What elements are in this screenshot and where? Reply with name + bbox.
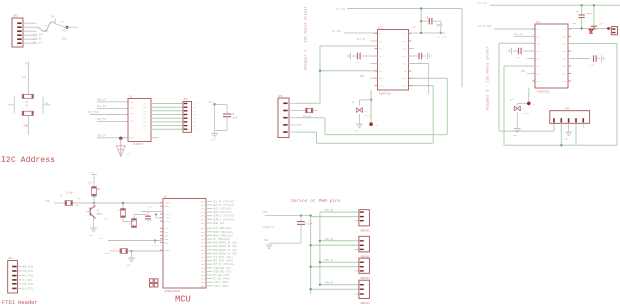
svg-text:GND: GND bbox=[89, 234, 94, 237]
electrolytic capacitor C11 bbox=[421, 17, 443, 27]
svg-text:SCL_5V: SCL_5V bbox=[33, 41, 42, 44]
label D1 values bbox=[365, 111, 372, 118]
svg-text:0.1uF: 0.1uF bbox=[152, 245, 159, 248]
svg-text:BLK_FTDI: BLK_FTDI bbox=[22, 287, 34, 290]
wire vertical net above R1/R2 bbox=[27, 62, 29, 95]
svg-text:AGND: AGND bbox=[165, 249, 171, 252]
svg-text:TXO_FTDI (PD1): TXO_FTDI (PD1) bbox=[213, 256, 234, 259]
ground below JP5 bbox=[564, 123, 572, 140]
svg-text:SCL_5V (PC5/A5): SCL_5V (PC5/A5) bbox=[213, 200, 235, 203]
wire JP5 pin5 stub bbox=[582, 123, 584, 127]
svg-text:U1: U1 bbox=[164, 195, 168, 198]
MCU U1 left pin stubs bbox=[160, 203, 163, 251]
svg-text:PWM_SERVO_2A (D3): PWM_SERVO_2A (D3) bbox=[213, 252, 238, 255]
label net names under JP1 wires bbox=[33, 30, 67, 45]
svg-text:RX_LED (PD5): RX_LED (PD5) bbox=[213, 274, 231, 277]
label JP4 pin numbers bbox=[194, 103, 197, 132]
wire servo power bus bbox=[309, 214, 311, 293]
svg-text:MCU: MCU bbox=[175, 295, 191, 305]
svg-text:PWM_2B: PWM_2B bbox=[325, 209, 334, 212]
svg-text:INT: INT bbox=[130, 119, 135, 122]
wire servo gnd rail bbox=[264, 239, 301, 248]
label D3 values bbox=[523, 109, 530, 116]
svg-text:GND: GND bbox=[130, 137, 135, 140]
wire JP3 pin4 stub bbox=[297, 124, 302, 126]
capacitor C6 bbox=[141, 212, 151, 222]
svg-text:INT_5V: INT_5V bbox=[97, 118, 107, 121]
svg-text:DTR: DTR bbox=[45, 200, 50, 203]
diode D1 zener bbox=[357, 108, 363, 113]
svg-text:GND_5V: GND_5V bbox=[97, 134, 107, 137]
wire JP5 pin2 down bbox=[560, 123, 562, 146]
label R6 10k bbox=[88, 182, 101, 192]
wire motor out net A bbox=[297, 78, 448, 134]
svg-text:VCC_5V0: VCC_5V0 bbox=[33, 34, 44, 37]
wire squiggle net crossover bbox=[37, 22, 56, 31]
svg-text:U2: U2 bbox=[129, 95, 133, 98]
label IC2 pin names bbox=[537, 28, 567, 83]
svg-text:AREF: AREF bbox=[165, 205, 171, 208]
label R9 value bbox=[104, 246, 116, 255]
svg-text:C14: C14 bbox=[516, 56, 521, 59]
svg-text:CURR_1 (PC1/A1): CURR_1 (PC1/A1) bbox=[213, 215, 235, 218]
svg-text:VBB: VBB bbox=[412, 26, 417, 29]
svg-text:ADC2 (PC2/A2): ADC2 (PC2/A2) bbox=[213, 211, 232, 214]
capacitor C17 top right bbox=[591, 4, 603, 29]
wire servo1 signal net bbox=[320, 209, 359, 212]
node junctions near MCU left bbox=[155, 213, 163, 218]
connector SERVO3 3-pin bbox=[359, 258, 370, 273]
wire U2 to JP4 nets bbox=[151, 104, 183, 130]
resistor R2 bbox=[22, 111, 33, 115]
wire IC1 VS right bbox=[409, 32, 447, 39]
svg-text:5V_FTDI: 5V_FTDI bbox=[22, 279, 33, 282]
svg-text:5-7.5V: 5-7.5V bbox=[478, 2, 488, 5]
electrolytic capacitor C16 top right bbox=[576, 4, 592, 28]
svg-text:VS 15-30V: VS 15-30V bbox=[478, 25, 492, 28]
svg-text:Stepper 1 - I2C motor driver: Stepper 1 - I2C motor driver bbox=[304, 6, 309, 70]
capacitor C15 with ground right of IC2 bbox=[568, 55, 605, 66]
svg-text:VCC_5V0: VCC_5V0 bbox=[88, 111, 99, 114]
wire IC1 enable stub bbox=[409, 48, 415, 50]
wire R8 net bbox=[134, 215, 146, 219]
svg-text:AVCC: AVCC bbox=[165, 220, 171, 223]
svg-text:VCC: VCC bbox=[88, 182, 93, 185]
svg-text:SCL: SCL bbox=[130, 106, 135, 109]
svg-text:STEP_EN2 (D7): STEP_EN2 (D7) bbox=[213, 270, 232, 273]
label U2 left nets bbox=[88, 98, 107, 137]
svg-text:RXI_FTDI (PD0): RXI_FTDI (PD0) bbox=[213, 260, 234, 263]
wire reset branch down bbox=[122, 202, 124, 209]
op-amp U2 body bbox=[128, 99, 151, 142]
wire IC2 scl net bbox=[514, 33, 535, 36]
svg-text:GND: GND bbox=[564, 138, 569, 141]
svg-text:VIN: VIN bbox=[60, 20, 65, 23]
svg-text:C15: C15 bbox=[590, 64, 595, 67]
svg-text:.1uF: .1uF bbox=[232, 117, 238, 120]
wire IC2 sda stub bbox=[521, 59, 535, 74]
connector SERVO1 3-pin bbox=[359, 210, 370, 226]
svg-text:SERVO1: SERVO1 bbox=[360, 230, 370, 233]
svg-text:PWM_SERVO_1A (D5): PWM_SERVO_1A (D5) bbox=[213, 249, 238, 252]
wire servo2 power net bbox=[309, 244, 359, 246]
svg-text:22p: 22p bbox=[148, 219, 153, 222]
svg-text:OUT1: OUT1 bbox=[379, 77, 385, 80]
svg-text:PWM_SERVO_2B (D9): PWM_SERVO_2B (D9) bbox=[213, 242, 238, 245]
svg-text:Stepper 2 - I2C motor driver: Stepper 2 - I2C motor driver bbox=[486, 46, 491, 110]
wire motor out net B bbox=[297, 86, 434, 144]
wire cap branch bbox=[215, 104, 227, 130]
svg-text:ADC3 (PC3/A3): ADC3 (PC3/A3) bbox=[213, 208, 232, 211]
label R5 bbox=[60, 192, 74, 198]
wire zener branch 2 bbox=[517, 88, 529, 106]
svg-text:OUT1: OUT1 bbox=[379, 85, 385, 88]
svg-text:AREF_EXT: AREF_EXT bbox=[213, 222, 225, 225]
svg-text:SS (PB2/D10): SS (PB2/D10) bbox=[213, 238, 231, 241]
ground below D3 bbox=[513, 113, 521, 138]
wire JP3 pin1 to IC1 bbox=[297, 46, 378, 103]
svg-text:VCC: VCC bbox=[148, 206, 153, 209]
label MCU right pin names bbox=[201, 200, 205, 287]
svg-text:JP4: JP4 bbox=[183, 98, 188, 101]
svg-text:INT_5V (PD2/D2): INT_5V (PD2/D2) bbox=[213, 263, 235, 266]
wire above R6 bbox=[91, 171, 97, 187]
capacitor C18 servo bbox=[263, 216, 313, 244]
wire loop around R1 R2 bbox=[8, 96, 51, 113]
svg-text:+: + bbox=[426, 17, 428, 21]
wire IC1 right pin2 down bbox=[409, 64, 429, 95]
svg-text:SJ1: SJ1 bbox=[22, 76, 27, 79]
wire top supply rail 2 bbox=[490, 4, 620, 6]
capacitor C13 with ground right of IC1 bbox=[409, 53, 431, 64]
resistor R9 bbox=[120, 249, 128, 254]
connector JP3 5-pin bbox=[278, 98, 289, 138]
svg-text:C4 .1uF: C4 .1uF bbox=[437, 36, 447, 39]
wire servo4 power net bbox=[309, 288, 359, 290]
svg-text:SCL_5V: SCL_5V bbox=[97, 105, 107, 108]
wire VS to IC1 bbox=[344, 32, 378, 34]
wire node tick bbox=[54, 19, 56, 24]
capacitor C14 with ground left of IC2 bbox=[508, 48, 535, 59]
resistor R6 pullup bbox=[92, 187, 97, 197]
wire JP5 pin4 down bbox=[575, 123, 577, 145]
svg-text:10k: 10k bbox=[104, 218, 109, 221]
node junction rail bbox=[93, 202, 95, 204]
svg-text:.1uF: .1uF bbox=[597, 23, 603, 26]
wire branch to zener bbox=[360, 100, 372, 106]
connector X2 power terminal bbox=[611, 27, 617, 35]
capacitor C10 with ground left of IC1 bbox=[347, 53, 377, 64]
svg-text:RST: RST bbox=[44, 24, 49, 27]
svg-text:GND: GND bbox=[264, 239, 269, 242]
svg-text:A3967SLB: A3967SLB bbox=[379, 93, 392, 96]
svg-text:C10: C10 bbox=[355, 61, 360, 64]
svg-text:Servos or PWM pins: Servos or PWM pins bbox=[291, 198, 341, 204]
svg-text:100uF: 100uF bbox=[436, 24, 444, 27]
ground symbol below U2 bbox=[116, 138, 125, 156]
svg-text:JP1: JP1 bbox=[13, 15, 18, 18]
svg-text:VCC: VCC bbox=[263, 211, 268, 214]
svg-text:XTAL1: XTAL1 bbox=[165, 213, 172, 216]
svg-text:VCC: VCC bbox=[44, 30, 49, 33]
svg-text:0.1uF: 0.1uF bbox=[305, 223, 313, 226]
svg-text:+: + bbox=[576, 11, 578, 15]
connector JP2 FTDI 6-pin bbox=[8, 261, 18, 294]
svg-text:SERVO3: SERVO3 bbox=[360, 277, 370, 280]
resistor R5 series on rail bbox=[65, 201, 73, 206]
svg-text:470uF 6v: 470uF 6v bbox=[263, 226, 275, 229]
wire R9 nets bbox=[110, 250, 163, 258]
svg-text:PWM_1B: PWM_1B bbox=[325, 238, 334, 241]
svg-text:OUT1: OUT1 bbox=[402, 77, 408, 80]
resistor R8 bbox=[132, 219, 137, 228]
svg-text:GND: GND bbox=[211, 139, 216, 142]
svg-text:OUT1: OUT1 bbox=[402, 85, 408, 88]
svg-text:GND: GND bbox=[127, 264, 132, 267]
wire second net to IC1 bbox=[319, 70, 378, 72]
svg-text:MISO (PB4/D12): MISO (PB4/D12) bbox=[213, 231, 234, 234]
diode D3 zener bbox=[515, 106, 521, 111]
wire FTDI stubs and labels bbox=[17, 266, 34, 291]
op-amp IC1 pin stubs bbox=[375, 34, 412, 86]
ground below Q2 bbox=[89, 219, 97, 238]
svg-text:0.1uF: 0.1uF bbox=[365, 114, 372, 117]
svg-text:VCC: VCC bbox=[130, 112, 135, 115]
svg-text:I2C Address: I2C Address bbox=[1, 155, 55, 165]
svg-text:+: + bbox=[533, 104, 535, 107]
svg-text:SDA_5V (PC4/A4): SDA_5V (PC4/A4) bbox=[213, 204, 235, 207]
transistor Q2 bbox=[87, 203, 103, 219]
wire motor2 net B loop bbox=[504, 44, 617, 146]
resistor R7 bbox=[121, 209, 126, 218]
svg-text:SCL_5V: SCL_5V bbox=[514, 33, 523, 36]
wire below R2 bbox=[27, 115, 29, 135]
wire to node bbox=[55, 24, 63, 27]
node junction red 2 bbox=[527, 102, 535, 107]
wire from junction bbox=[64, 26, 79, 28]
svg-text:0.1uF: 0.1uF bbox=[66, 192, 74, 195]
svg-text:XTAL2 (PB7): XTAL2 (PB7) bbox=[213, 285, 229, 288]
svg-text:100uF: 100uF bbox=[586, 12, 593, 15]
svg-text:STEP_EN1 (D4): STEP_EN1 (D4) bbox=[213, 267, 232, 270]
svg-text:VCC: VCC bbox=[209, 101, 214, 104]
svg-text:JP2: JP2 bbox=[8, 257, 13, 260]
svg-text:SDA: SDA bbox=[130, 101, 135, 104]
svg-text:+: + bbox=[376, 124, 378, 127]
svg-text:PWM_2A: PWM_2A bbox=[325, 282, 334, 285]
label R1 R2 values bbox=[26, 101, 49, 107]
MCU U1 body bbox=[163, 199, 206, 289]
svg-text:GND: GND bbox=[62, 38, 67, 41]
svg-text:CTS_FTDI: CTS_FTDI bbox=[22, 283, 34, 286]
wire R7 to MCU bbox=[123, 218, 134, 222]
connector JP5 motor 5-pin bbox=[550, 111, 590, 124]
wire top supply rail bbox=[347, 9, 462, 88]
wire vertical to pullup bbox=[93, 196, 95, 203]
diode D2 zener below rail bbox=[589, 29, 593, 34]
svg-text:GRN: GRN bbox=[75, 204, 80, 207]
wire cap to VS rail bbox=[440, 21, 442, 34]
resistor R10 on JP3 pin2 bbox=[297, 108, 318, 118]
wire servo4 stub bbox=[355, 293, 359, 295]
svg-text:GND: GND bbox=[355, 130, 360, 133]
resistor R1 bbox=[22, 94, 33, 98]
wire IC2 VS right rail bbox=[568, 27, 611, 30]
wire servo1 stub bbox=[355, 220, 359, 222]
op-amp IC2 body bbox=[535, 24, 568, 88]
label xtal values bbox=[118, 209, 153, 226]
wire servo signal bus bbox=[319, 212, 321, 285]
label spare net specks bbox=[44, 20, 577, 248]
svg-text:PWM_1A: PWM_1A bbox=[325, 259, 334, 262]
svg-text:VBB: VBB bbox=[572, 22, 577, 25]
svg-text:XTAL2: XTAL2 bbox=[165, 217, 172, 220]
svg-text:VCC: VCC bbox=[25, 63, 30, 66]
connector SERVO2 3-pin bbox=[359, 236, 370, 252]
wire servo3 power net bbox=[309, 266, 359, 268]
wire DTR rail bbox=[54, 202, 163, 204]
svg-text:IC2: IC2 bbox=[536, 21, 541, 24]
svg-text:PWM_SERVO_1B (D6): PWM_SERVO_1B (D6) bbox=[213, 245, 238, 248]
svg-text:FTDI Header: FTDI Header bbox=[2, 300, 38, 306]
node junction red bbox=[369, 122, 377, 127]
svg-text:RESET: RESET bbox=[165, 202, 172, 205]
svg-text:IC1: IC1 bbox=[378, 26, 383, 29]
node junction on GND net bbox=[119, 137, 122, 140]
op-amp IC1 body bbox=[378, 30, 409, 91]
ground below cap branch bbox=[211, 131, 218, 142]
wire cap branch vertical bbox=[420, 7, 422, 33]
wire IC1 left stubs bbox=[357, 38, 378, 78]
svg-text:VCC: VCC bbox=[99, 237, 104, 240]
wire servo vcc rail bbox=[265, 214, 311, 216]
wire servo2 signal net bbox=[319, 238, 359, 242]
svg-text:SCK (PB5/D13): SCK (PB5/D13) bbox=[213, 227, 232, 230]
svg-text:5V: 5V bbox=[52, 16, 56, 19]
svg-text:MMBT: MMBT bbox=[97, 213, 103, 216]
connector SERVO4 3-pin bbox=[359, 280, 370, 298]
wire JP1 pin stubs bbox=[23, 23, 37, 43]
wire MCU right nets group1 bbox=[206, 200, 235, 225]
crystal Q1 squares bbox=[150, 279, 158, 287]
svg-text:SDA_5V: SDA_5V bbox=[97, 98, 107, 101]
svg-text:10uH: 10uH bbox=[104, 252, 110, 255]
wire MCU right nets group2 bbox=[206, 227, 238, 288]
svg-text:PCF8574: PCF8574 bbox=[133, 143, 144, 146]
svg-text:SDA_5V: SDA_5V bbox=[33, 38, 42, 41]
svg-text:GRN_FTDI: GRN_FTDI bbox=[22, 266, 34, 269]
label C8 value bbox=[232, 113, 238, 119]
svg-text:CURR_2 (PC0/A0): CURR_2 (PC0/A0) bbox=[213, 218, 235, 221]
ground below R9 bbox=[127, 258, 135, 267]
svg-text:10k: 10k bbox=[97, 188, 102, 191]
label IC1 pin names bbox=[379, 33, 407, 88]
svg-text:JP5: JP5 bbox=[565, 107, 570, 110]
wire avcc rail bbox=[99, 237, 163, 244]
wire VS2 to IC2 bbox=[494, 28, 535, 30]
wire motor2 net A loop bbox=[499, 43, 554, 131]
svg-text:AD0: AD0 bbox=[360, 75, 365, 78]
svg-text:SERVO4: SERVO4 bbox=[360, 302, 370, 305]
svg-text:ATMEGA328P: ATMEGA328P bbox=[165, 290, 181, 293]
svg-text:JP3: JP3 bbox=[278, 95, 283, 98]
node junction VCC bbox=[213, 103, 215, 105]
wire servo3 signal net bbox=[319, 259, 359, 263]
svg-text:5-7.5V: 5-7.5V bbox=[336, 8, 346, 11]
svg-text:TX_LED (PD6): TX_LED (PD6) bbox=[213, 278, 231, 281]
wire servo4 signal net bbox=[319, 282, 359, 286]
connector JP4 8-pin bbox=[183, 102, 192, 133]
capacitor C8 bbox=[223, 113, 231, 115]
svg-text:VS 12V: VS 12V bbox=[332, 30, 342, 33]
wire servo3 stub bbox=[355, 270, 359, 272]
wire JP3 stubs bbox=[289, 103, 297, 132]
svg-text:AD1: AD1 bbox=[521, 70, 526, 73]
wire IC1 bottom branch bbox=[370, 90, 372, 124]
svg-text:GND: GND bbox=[513, 134, 518, 137]
svg-text:MOSI (PB3/D11): MOSI (PB3/D11) bbox=[213, 234, 234, 237]
ground below D1 bbox=[355, 114, 363, 133]
svg-text:SCL_5V: SCL_5V bbox=[357, 38, 366, 41]
wire C6 to MCU bbox=[148, 211, 163, 213]
svg-text:XTAL1 (PB6): XTAL1 (PB6) bbox=[213, 281, 229, 284]
wire servo1 power net bbox=[311, 216, 359, 218]
op-amp IC2 pin stubs bbox=[532, 29, 571, 81]
wire servo2 stub bbox=[355, 248, 359, 250]
svg-text:VIN: VIN bbox=[62, 30, 67, 33]
wire U2 left pin nets bbox=[90, 102, 128, 138]
svg-text:0.1uF: 0.1uF bbox=[523, 112, 530, 115]
label U2 pin names bbox=[130, 101, 147, 140]
label MCU left pin names bbox=[165, 202, 172, 253]
wire U2 right stub bbox=[151, 137, 159, 139]
svg-text:A3967SLB: A3967SLB bbox=[537, 91, 550, 94]
svg-text:RXI_FTDI: RXI_FTDI bbox=[22, 275, 34, 278]
connector JP1 6-pin header bbox=[12, 18, 23, 47]
node junction dot bbox=[66, 26, 69, 29]
svg-text:TXO_FTDI: TXO_FTDI bbox=[22, 270, 34, 273]
svg-text:C13: C13 bbox=[418, 61, 423, 64]
svg-text:GND: GND bbox=[24, 125, 29, 128]
